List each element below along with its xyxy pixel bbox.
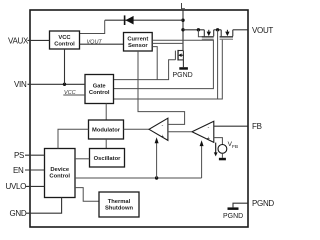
svg-text:ThermalShutdown: ThermalShutdown	[105, 199, 133, 211]
wire output rail to VOUT (3 segments)	[183, 29, 204, 31]
svg-text:PGND: PGND	[223, 213, 243, 220]
net VOUT wire (VCC Control to Current Sensor)	[80, 43, 124, 45]
svg-text:DeviceControl: DeviceControl	[49, 167, 70, 179]
wire Gate Control to NMOS gate	[114, 60, 176, 80]
voltage reference VFB	[214, 138, 238, 158]
Oscillator block	[90, 149, 125, 168]
ground (VFB reference)	[219, 158, 226, 161]
Current Sensor block	[124, 33, 153, 52]
op-amp U1 (error amp)	[149, 118, 168, 140]
wire diode line	[105, 19, 183, 21]
svg-text:L: L	[181, 1, 186, 11]
node junction dot on control line	[155, 176, 158, 179]
wire Device Control to Thermal Shutdown	[75, 188, 99, 202]
transistor Q1 (NMOS switch)	[175, 50, 184, 67]
svg-text:VAUX: VAUX	[8, 36, 29, 45]
svg-text:CurrentSensor: CurrentSensor	[127, 37, 148, 49]
wire PS	[25, 154, 45, 156]
Gate Control block	[85, 75, 114, 104]
Device Control block	[45, 149, 76, 198]
svg-text:VOUT: VOUT	[87, 40, 103, 46]
wire Device Control to Oscillator	[75, 158, 90, 160]
wire VAUX to VCC Control	[28, 39, 50, 41]
node junction dot on diode line	[181, 19, 184, 22]
wire GND to Device Control	[26, 198, 62, 214]
wire Current Sensor to NMOS drain	[152, 42, 183, 44]
svg-text:-: -	[162, 122, 164, 128]
wire Modulator output to error amp	[124, 128, 150, 130]
Modulator block	[89, 120, 124, 139]
wire VIN to Gate Control	[28, 83, 86, 85]
ground PGND bar (NMOS source)	[179, 67, 188, 70]
wire PGND inside	[233, 203, 248, 207]
ground PGND bar (inside)	[228, 207, 239, 210]
wire VCC vertical from VCC Control	[64, 49, 66, 84]
Thermal Shutdown block	[99, 192, 139, 217]
svg-text:PGND: PGND	[252, 199, 274, 208]
outer IC boundary box	[30, 10, 248, 227]
wire L vertical (L pin to NMOS drain)	[182, 10, 184, 51]
svg-text:PS: PS	[14, 151, 24, 160]
svg-text:PGND: PGND	[173, 72, 193, 79]
wire Modulator to Oscillator	[105, 139, 107, 149]
arrow control into U1	[155, 137, 159, 178]
diode D1 (cathode left)	[124, 15, 134, 25]
transistor M2 (isolation PMOS right)	[220, 30, 233, 40]
svg-text:Modulator: Modulator	[92, 128, 121, 134]
svg-text:+: +	[207, 136, 210, 142]
op-amp U2 (FB comparator)	[192, 121, 214, 142]
svg-text:VIN: VIN	[14, 80, 27, 89]
svg-text:GND: GND	[10, 209, 27, 218]
svg-text:Oscillator: Oscillator	[94, 156, 121, 162]
svg-text:EN: EN	[13, 166, 24, 175]
wire elbow dot to M1 channel	[198, 30, 202, 37]
wire mid-node sense vertical	[217, 30, 219, 99]
wire U2 output to U1 +	[168, 131, 192, 133]
node junction dot before M1	[197, 28, 200, 31]
svg-text:+: +	[161, 134, 164, 140]
wire Current Sensor elbow to NMOS gate net	[152, 47, 157, 80]
node junction dot VCC net	[63, 83, 66, 86]
wire Device Control long control line	[75, 177, 202, 179]
node junction dot mid rail	[216, 28, 219, 31]
VCC Control block	[50, 31, 80, 49]
wire VCC Control to diode branch	[80, 20, 105, 33]
wire UVLO	[26, 185, 45, 187]
wire Gate Control to Modulator	[105, 104, 107, 121]
svg-text:FB: FB	[232, 144, 238, 150]
wire M2 gate net	[114, 40, 223, 99]
svg-text:VOUT: VOUT	[252, 26, 273, 35]
transistor M1 (isolation PMOS left)	[202, 30, 214, 40]
svg-text:FB: FB	[252, 122, 262, 131]
svg-text:-: -	[208, 125, 210, 131]
node junction dot on rail	[181, 28, 184, 31]
svg-text:UVLO: UVLO	[6, 182, 27, 191]
arrow control into U2	[200, 140, 204, 178]
wire Device Control riser to Modulator	[58, 129, 89, 148]
wire feedback elbow (current sense to U1 -)	[138, 51, 185, 124]
wire FB to U2 -	[214, 125, 248, 127]
wire EN	[25, 169, 45, 171]
wire M1 gate net (Current Sensor / Gate Control)	[114, 40, 214, 88]
